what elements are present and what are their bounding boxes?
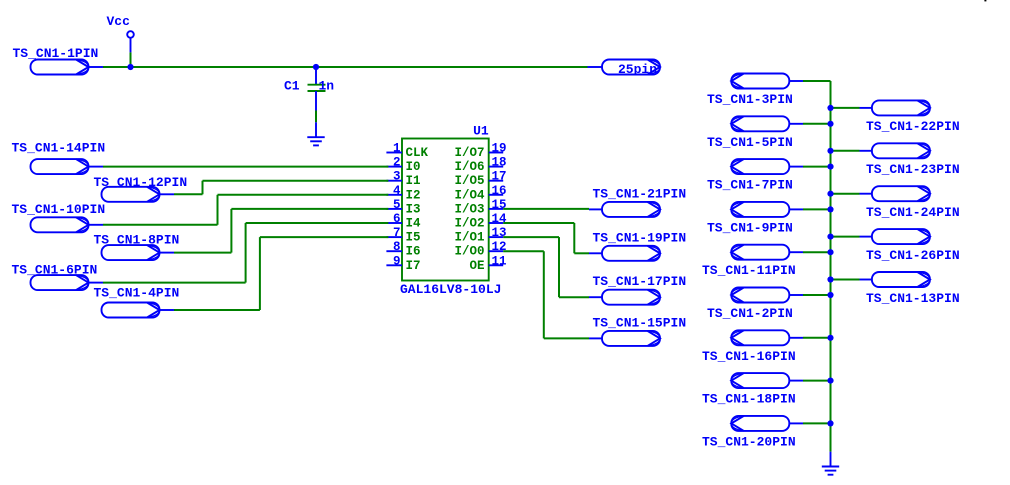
wire U1 pin 14 to TS_CN1-19PIN — [503, 223, 589, 253]
svg-text:I/O0: I/O0 — [454, 245, 484, 259]
junction bus TS_CN1-2PIN — [827, 292, 833, 298]
wire TS_CN1-2PIN to bus — [803, 294, 831, 296]
pin 13 I/O1 — [454, 226, 506, 245]
svg-text:TS_CN1-15PIN: TS_CN1-15PIN — [593, 315, 687, 330]
wire TS_CN1-16PIN to bus — [803, 337, 831, 339]
junction bus TS_CN1-20PIN — [827, 420, 833, 426]
svg-text:I/O6: I/O6 — [454, 160, 484, 174]
wire TS_CN1-11PIN to bus — [803, 251, 831, 253]
svg-text:I/O2: I/O2 — [454, 217, 484, 231]
connector TS_CN1-1PIN — [13, 46, 104, 75]
wire TS_CN1-6PIN to U1 pin 6 — [103, 223, 388, 283]
junction bus TS_CN1-7PIN — [827, 164, 833, 170]
junction bus TS_CN1-18PIN — [827, 378, 833, 384]
svg-text:TS_CN1-17PIN: TS_CN1-17PIN — [593, 274, 687, 289]
wire U1 pin 12 to TS_CN1-15PIN — [503, 251, 589, 338]
connector TS_CN1-2PIN — [707, 288, 803, 322]
svg-text:TS_CN1-3PIN: TS_CN1-3PIN — [707, 92, 793, 107]
connector TS_CN1-26PIN — [860, 229, 960, 263]
svg-text:TS_CN1-21PIN: TS_CN1-21PIN — [593, 186, 687, 201]
junction bus TS_CN1-24PIN — [827, 191, 833, 197]
svg-text:18: 18 — [492, 156, 507, 170]
connector TS_CN1-21PIN — [589, 186, 686, 217]
wire bus to TS_CN1-13PIN — [831, 279, 860, 281]
wire bus to TS_CN1-24PIN — [831, 193, 860, 195]
ground bus bottom — [822, 452, 839, 475]
svg-text:TS_CN1-10PIN: TS_CN1-10PIN — [12, 202, 106, 217]
junction bus TS_CN1-16PIN — [827, 335, 833, 341]
svg-text:1n: 1n — [319, 79, 335, 94]
svg-text:I/O7: I/O7 — [454, 146, 484, 160]
ground C1 — [307, 122, 324, 145]
pin 9 I7 — [386, 254, 420, 273]
connector TS_CN1-19PIN — [589, 230, 686, 260]
connector TS_CN1-14PIN — [12, 140, 106, 174]
svg-text:I0: I0 — [406, 160, 421, 174]
svg-text:I/O4: I/O4 — [454, 188, 485, 202]
svg-text:5: 5 — [393, 198, 401, 212]
wire TS_CN1-10PIN to U1 pin 4 — [103, 195, 388, 225]
svg-text:I1: I1 — [406, 174, 421, 188]
wire TS_CN1-14PIN to U1 pin 2 — [103, 166, 388, 168]
svg-text:16: 16 — [492, 184, 507, 198]
svg-text:I5: I5 — [406, 231, 421, 245]
connector TS_CN1-10PIN — [12, 202, 106, 232]
svg-text:2: 2 — [393, 156, 401, 170]
connector TS_CN1-23PIN — [860, 143, 960, 177]
connector TS_CN1-24PIN — [860, 186, 960, 220]
svg-text:C1: C1 — [284, 79, 300, 94]
pin 17 I/O5 — [454, 170, 506, 189]
pin 6 I4 — [386, 212, 421, 231]
svg-text:TS_CN1-9PIN: TS_CN1-9PIN — [707, 220, 793, 235]
svg-text:1: 1 — [393, 142, 401, 156]
connector TS_CN1-9PIN — [707, 202, 803, 236]
wire TS_CN1-3PIN to bus — [803, 80, 831, 82]
svg-text:I/O1: I/O1 — [454, 231, 484, 245]
svg-text:U1: U1 — [473, 124, 489, 139]
wire ground bus — [830, 81, 832, 452]
junction bus TS_CN1-26PIN — [827, 234, 833, 240]
connector TS_CN1-5PIN — [707, 116, 803, 150]
pin 3 I1 — [386, 170, 420, 189]
pin 5 I3 — [386, 198, 420, 217]
connector TS_CN1-20PIN — [702, 416, 803, 450]
connector TS_CN1-18PIN — [702, 373, 803, 407]
pin 11 OE — [469, 254, 506, 273]
connector TS_CN1-16PIN — [702, 330, 803, 364]
svg-text:TS_CN1-4PIN: TS_CN1-4PIN — [94, 286, 180, 301]
connector TS_CN1-6PIN — [12, 262, 104, 290]
svg-text:I3: I3 — [406, 202, 421, 216]
wire TS_CN1-5PIN to bus — [803, 123, 831, 125]
wire U1 pin 13 to TS_CN1-17PIN — [503, 237, 589, 297]
svg-text:4: 4 — [393, 184, 401, 198]
pin 15 I/O3 — [454, 198, 506, 217]
svg-text:I/O5: I/O5 — [454, 174, 484, 188]
capacitor C1 — [284, 67, 326, 111]
svg-text:TS_CN1-26PIN: TS_CN1-26PIN — [866, 248, 960, 263]
svg-text:17: 17 — [492, 170, 507, 184]
pin 19 I/O7 — [454, 142, 506, 161]
wire TS_CN1-12PIN to U1 pin 3 — [174, 181, 388, 195]
svg-text:TS_CN1-2PIN: TS_CN1-2PIN — [707, 306, 793, 321]
junction bus TS_CN1-22PIN — [827, 105, 833, 111]
wire net VCC rail — [103, 66, 588, 68]
wire TS_CN1-20PIN to bus — [803, 422, 831, 424]
wire Vcc to rail — [130, 52, 132, 67]
connector TS_CN1-11PIN — [702, 245, 803, 279]
svg-text:I/O3: I/O3 — [454, 202, 484, 216]
pin 14 I/O2 — [454, 212, 507, 231]
wire TS_CN1-7PIN to bus — [803, 166, 831, 168]
svg-text:TS_CN1-13PIN: TS_CN1-13PIN — [866, 291, 960, 306]
connector TS_CN1-13PIN — [860, 272, 960, 306]
svg-text:CLK: CLK — [406, 146, 429, 160]
junction Vcc rail — [127, 64, 133, 70]
svg-text:TS_CN1-5PIN: TS_CN1-5PIN — [707, 135, 793, 150]
connector TS_CN1-12PIN — [94, 175, 188, 202]
svg-text:8: 8 — [393, 240, 401, 254]
junction bus TS_CN1-9PIN — [827, 206, 833, 212]
svg-text:TS_CN1-22PIN: TS_CN1-22PIN — [866, 119, 960, 134]
IC U1 body — [402, 124, 489, 281]
pin 18 I/O6 — [454, 156, 506, 175]
wire bus to TS_CN1-23PIN — [831, 150, 860, 152]
svg-text:I6: I6 — [406, 245, 421, 259]
junction bus TS_CN1-13PIN — [827, 276, 833, 282]
connector TS_CN1-4PIN — [94, 286, 180, 318]
svg-text:19: 19 — [492, 142, 507, 156]
connector TS_CN1-15PIN — [589, 315, 686, 346]
svg-text:TS_CN1-23PIN: TS_CN1-23PIN — [866, 162, 960, 177]
pin 4 I2 — [386, 184, 420, 203]
wire bus to TS_CN1-26PIN — [831, 236, 860, 238]
value GAL16LV8-10LJ — [400, 282, 501, 297]
connector TS_CN1-7PIN — [707, 159, 803, 193]
svg-text:3: 3 — [393, 170, 401, 184]
wire TS_CN1-4PIN to U1 pin 7 — [174, 237, 388, 310]
value 1n — [319, 79, 335, 94]
svg-text:TS_CN1-24PIN: TS_CN1-24PIN — [866, 205, 960, 220]
svg-text:I7: I7 — [406, 259, 421, 273]
svg-text:TS_CN1-20PIN: TS_CN1-20PIN — [702, 434, 796, 449]
wire C1 to ground — [315, 111, 317, 123]
power Vcc — [107, 14, 134, 52]
connector TS_CN1-3PIN — [707, 74, 803, 108]
junction bus TS_CN1-23PIN — [827, 148, 833, 154]
wire TS_CN1-8PIN to U1 pin 5 — [174, 209, 388, 253]
svg-text:TS_CN1-7PIN: TS_CN1-7PIN — [707, 178, 793, 193]
svg-text:TS_CN1-19PIN: TS_CN1-19PIN — [593, 230, 687, 245]
svg-text:OE: OE — [469, 259, 484, 273]
connector TS_CN1-8PIN — [94, 232, 180, 260]
junction C1 rail — [313, 64, 319, 70]
svg-text:25pin: 25pin — [618, 62, 657, 77]
pin 8 I6 — [386, 240, 420, 259]
svg-text:TS_CN1-16PIN: TS_CN1-16PIN — [702, 349, 796, 364]
junction bus TS_CN1-11PIN — [827, 249, 833, 255]
svg-text:TS_CN1-14PIN: TS_CN1-14PIN — [12, 140, 106, 155]
svg-text:I4: I4 — [406, 217, 422, 231]
svg-text:7: 7 — [393, 226, 401, 240]
pin 1 CLK — [386, 142, 428, 161]
svg-text:Vcc: Vcc — [107, 14, 131, 29]
svg-text:6: 6 — [393, 212, 401, 226]
connector TS_CN1-22PIN — [860, 100, 960, 134]
wire U1 pin 15 to TS_CN1-21PIN — [503, 208, 589, 210]
wire TS_CN1-9PIN to bus — [803, 208, 831, 210]
svg-text:11: 11 — [492, 254, 507, 268]
svg-text:TS_CN1-11PIN: TS_CN1-11PIN — [702, 263, 796, 278]
screen artifact — [984, 0, 986, 1]
connector 25pin — [588, 60, 661, 78]
pin 7 I5 — [386, 226, 420, 245]
wire TS_CN1-18PIN to bus — [803, 380, 831, 382]
svg-text:9: 9 — [393, 254, 401, 268]
pin 16 I/O4 — [454, 184, 506, 203]
connector TS_CN1-17PIN — [589, 274, 686, 305]
pin 2 I0 — [386, 156, 420, 175]
svg-text:TS_CN1-18PIN: TS_CN1-18PIN — [702, 392, 796, 407]
junction bus TS_CN1-5PIN — [827, 121, 833, 127]
wire bus to TS_CN1-22PIN — [831, 107, 860, 109]
svg-text:I2: I2 — [406, 188, 421, 202]
pin 12 I/O0 — [454, 240, 506, 259]
svg-text:GAL16LV8-10LJ: GAL16LV8-10LJ — [400, 282, 501, 297]
